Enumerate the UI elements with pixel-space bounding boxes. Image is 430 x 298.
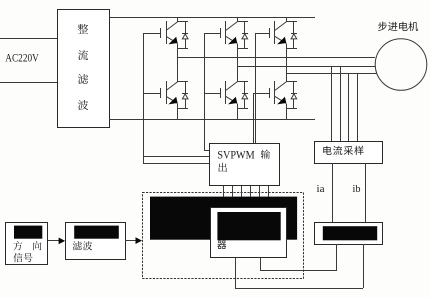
gate wire Q6 to SVPWM [253, 93, 269, 144]
gate wire Q3 to SVPWM [255, 33, 269, 144]
direction signal block 方向信号 [6, 223, 48, 265]
PWM wires SVPWM to processor [224, 186, 269, 197]
diode D1 (freewheel) [178, 22, 188, 49]
SVPWM output block [210, 144, 280, 186]
phase A output wire to motor [178, 57, 375, 59]
wire A/D output 2 to processor [235, 244, 364, 289]
wire ib: sampler to A/D [365, 163, 367, 222]
transistor Q3 (IGBT) [270, 21, 287, 44]
DC+ top bus wire [109, 17, 315, 19]
svg-text:ia: ia [317, 184, 326, 195]
diode D4 (freewheel) [178, 82, 188, 109]
svg-text:ib: ib [353, 184, 361, 195]
arrow wire 方向信号 to 滤波 [48, 238, 65, 245]
transistor Q2 (IGBT) [221, 21, 238, 44]
stepper motor M 步进电机 [375, 39, 427, 91]
current sense tap wire 1 [331, 67, 333, 141]
redacted banner bar [150, 197, 297, 240]
wire A/D output 1 to processor [261, 244, 337, 271]
phase leg A vertical wire [177, 17, 179, 120]
diode D5 (freewheel) [237, 82, 248, 109]
AC mains input wires [0, 39, 57, 83]
transistor Q5 (IGBT) [221, 81, 238, 104]
svg-text:SVPWM: SVPWM [217, 147, 255, 161]
gate wire Q1/Q4 to SVPWM [144, 33, 210, 164]
DSP dashed boundary box [143, 193, 304, 279]
diode D3 (freewheel) [286, 22, 297, 49]
arrow wire 滤波 to DSP [125, 237, 142, 244]
current sense tap wire 3 [348, 74, 350, 141]
svg-text:AC220V: AC220V [5, 50, 39, 64]
DC- bottom bus wire [109, 119, 315, 121]
transistor Q1 (IGBT) [161, 21, 178, 44]
rectifier-filter block 整流滤波 [58, 10, 110, 128]
filter block 滤波 [66, 223, 126, 260]
phase leg B vertical wire [237, 17, 239, 120]
label 步进电机 [378, 22, 418, 31]
wire ia: sampler to A/D [332, 163, 334, 222]
A/D converter block (redacted) [315, 223, 383, 245]
current sense tap wire 4 [357, 74, 359, 141]
diode D2 (freewheel) [237, 22, 248, 49]
transistor Q6 (IGBT) [270, 81, 287, 104]
current sampling block 电流采样 [315, 142, 383, 164]
gate wire Q2/Q5 to SVPWM [204, 33, 220, 151]
transistor Q4 (IGBT) [161, 81, 178, 104]
phase leg C vertical wire [286, 17, 288, 120]
diode D6 (freewheel) [286, 82, 297, 109]
processor block 器 (redacted) [211, 208, 287, 258]
current sense tap wire 2 [340, 67, 342, 141]
phase C output wire to motor [286, 73, 377, 75]
phase B output wire to motor [237, 66, 375, 68]
